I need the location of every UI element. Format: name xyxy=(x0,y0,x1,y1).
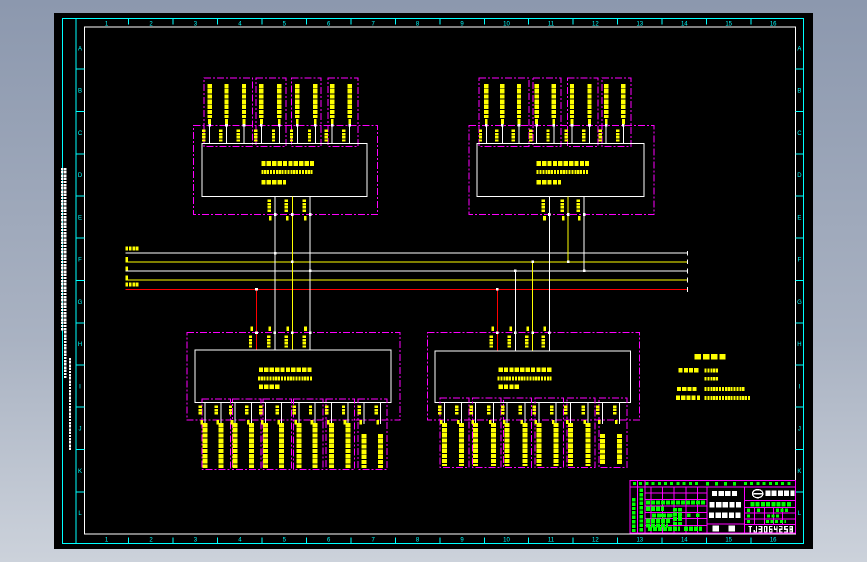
junction bus2-wire xyxy=(291,261,294,264)
svg-text:8: 8 xyxy=(416,538,420,544)
svg-text:K: K xyxy=(78,469,82,475)
signal tag xyxy=(588,119,591,124)
svg-text:G: G xyxy=(797,300,802,306)
svg-text:L: L xyxy=(798,511,802,517)
hydraulic cabinet 1 output wire 7 xyxy=(298,403,300,425)
signal tag xyxy=(491,326,494,330)
wire label xyxy=(438,405,441,414)
output signal label 10 xyxy=(346,423,351,468)
svg-text:J: J xyxy=(79,427,82,433)
controller name text xyxy=(259,368,312,373)
bus label SafetyBus xyxy=(126,283,139,287)
signal tag xyxy=(376,420,379,424)
feeder cabinet 1 terminal strip box 1 xyxy=(204,78,252,147)
wire label xyxy=(577,200,580,212)
junction xyxy=(331,124,334,127)
param line 1 label xyxy=(679,368,699,372)
output signal label 9 xyxy=(568,423,573,466)
signal tag xyxy=(269,326,272,330)
controller io text xyxy=(261,180,286,185)
junction xyxy=(291,331,294,334)
wire label xyxy=(259,406,262,415)
feeder cabinet 2 terminal strip box 4 xyxy=(602,78,631,147)
hydraulic cabinet 2 output wire 11 xyxy=(602,402,604,424)
hydraulic cabinet 1 output terminal box 4 xyxy=(293,399,323,470)
wire label xyxy=(564,405,567,414)
signal tag xyxy=(327,420,330,424)
feeder cabinet 1 input signal label 1 xyxy=(207,84,211,118)
wire label xyxy=(342,130,345,142)
wire xyxy=(243,124,245,144)
junction bus3 right b xyxy=(514,270,517,273)
bus label 2 xyxy=(126,257,129,261)
wire label xyxy=(229,406,232,415)
output signal label 11 xyxy=(361,434,366,468)
bus terminator tick xyxy=(687,259,689,264)
junction xyxy=(255,331,258,334)
signal tag xyxy=(314,119,317,124)
svg-text:11: 11 xyxy=(548,22,555,28)
wire label xyxy=(309,406,312,415)
signal tag xyxy=(251,326,254,330)
wire xyxy=(501,124,503,144)
signal tag xyxy=(622,119,625,124)
wire label xyxy=(199,406,202,415)
wire label xyxy=(374,406,377,415)
controller model text xyxy=(498,376,552,380)
feeder cabinet 2 input signal label 7 xyxy=(587,84,591,118)
svg-text:K: K xyxy=(797,469,801,475)
junction xyxy=(309,213,312,216)
tap wire white right xyxy=(514,271,516,351)
title block columns xyxy=(637,480,639,533)
feeder cabinet 1 comm wire 1 xyxy=(274,196,276,349)
hydraulic cabinet 1 output terminal box 1 xyxy=(202,399,231,470)
output signal label 2 xyxy=(219,423,224,468)
signal tag xyxy=(278,119,281,124)
bus net 5 safety (red) xyxy=(126,288,688,290)
hydraulic cabinet 2 output wire 8 xyxy=(555,402,557,424)
feeder cabinet 1 input signal label 7 xyxy=(313,84,317,118)
signal tag xyxy=(360,420,363,424)
approval column vertical xyxy=(639,489,643,532)
junction bus5 tap right xyxy=(496,288,499,291)
feeder cabinet 2 terminal strip box 2 xyxy=(533,78,561,147)
signal tag xyxy=(615,420,618,424)
output signal label 7 xyxy=(537,423,542,466)
wire label xyxy=(267,336,270,348)
signal tag xyxy=(296,119,299,124)
feeder cabinet 1 comm wire 3 xyxy=(309,196,311,349)
signal tag xyxy=(208,119,211,124)
bus label 4 xyxy=(126,275,129,279)
signal tag xyxy=(225,119,228,124)
wire label xyxy=(542,336,545,348)
wire label xyxy=(512,130,515,142)
controller name text xyxy=(499,368,552,373)
signal tag xyxy=(311,420,314,424)
junction bus2 right b xyxy=(531,261,534,264)
title name box divider xyxy=(707,523,744,525)
svg-text:B: B xyxy=(78,89,82,95)
output signal label 12 xyxy=(617,434,622,464)
controller io text xyxy=(537,180,562,185)
junction bus5 tap left xyxy=(255,288,258,291)
hydraulic cabinet 2 output terminal box 6 xyxy=(599,398,627,467)
title block header row xyxy=(630,486,796,488)
hydraulic cabinet 2 output wire 12 xyxy=(618,402,620,424)
left table entry blob xyxy=(673,508,677,525)
tap wire yellow right xyxy=(532,262,534,351)
project name text xyxy=(712,491,737,496)
wire label xyxy=(285,200,288,212)
signal tag xyxy=(501,119,504,124)
svg-text:A: A xyxy=(797,46,801,52)
output signal label 1 xyxy=(202,423,207,468)
tap wire red right xyxy=(496,289,498,351)
feeder cabinet 2 input signal label 8 xyxy=(604,84,608,118)
param line 4 label xyxy=(676,396,700,400)
feeder cabinet 1 terminal strip box 2 xyxy=(256,78,286,147)
wire xyxy=(536,124,538,144)
signal tag xyxy=(518,119,521,124)
param line 3 value xyxy=(705,387,745,391)
signal tag xyxy=(344,420,347,424)
svg-text:H: H xyxy=(78,342,82,348)
feeder cabinet 2 comm wire 2 xyxy=(567,196,569,261)
svg-text:D: D xyxy=(78,173,83,179)
wire label xyxy=(542,200,545,212)
svg-text:12: 12 xyxy=(592,22,599,28)
svg-text:10: 10 xyxy=(503,22,510,28)
signal tag xyxy=(260,119,263,124)
output signal label 4 xyxy=(491,423,496,466)
signal tag xyxy=(243,119,246,124)
svg-text:15: 15 xyxy=(725,22,732,28)
output signal label 4 xyxy=(249,423,254,468)
controller model text xyxy=(258,376,312,380)
junction bus3-wire xyxy=(309,270,312,273)
signal tag xyxy=(231,420,234,424)
wire label xyxy=(490,336,493,348)
signal tag xyxy=(294,420,297,424)
bus terminator tick xyxy=(687,278,689,283)
output signal label 3 xyxy=(473,423,478,466)
revision header entries xyxy=(633,482,698,485)
wire label xyxy=(249,336,252,348)
wire xyxy=(278,124,280,144)
wire xyxy=(260,124,262,144)
signal tag xyxy=(304,326,307,330)
svg-text:B: B xyxy=(797,89,801,95)
bus net 2 (yellow) xyxy=(126,261,688,263)
title block right table columns xyxy=(754,507,756,524)
svg-text:5: 5 xyxy=(283,538,287,544)
hydraulic cabinet 1 enclosure xyxy=(187,333,400,421)
junction bus3 right a xyxy=(583,270,586,273)
signal tag xyxy=(552,119,555,124)
signal tag xyxy=(520,420,523,424)
signal tag xyxy=(485,119,488,124)
svg-text:10: 10 xyxy=(503,538,510,544)
wire label xyxy=(308,130,311,142)
feeder cabinet 2 enclosure xyxy=(469,125,654,214)
junction xyxy=(348,124,351,127)
bus terminator tick xyxy=(687,287,689,292)
junction xyxy=(274,213,277,216)
wire label xyxy=(529,130,532,142)
feeder cabinet 2 input signal label 2 xyxy=(500,84,504,118)
wire xyxy=(518,124,520,144)
signal tag xyxy=(247,420,250,424)
wire label xyxy=(342,406,345,415)
hydraulic cabinet 1 output wire 4 xyxy=(250,403,252,425)
junction xyxy=(225,124,228,127)
hydraulic cabinet 1 output wire 9 xyxy=(330,403,332,425)
feeder cabinet 1 input signal label 8 xyxy=(330,84,334,118)
controller name text xyxy=(537,161,590,166)
output signal label 1 xyxy=(442,423,447,466)
param line 2 value xyxy=(705,377,719,381)
controller io text xyxy=(259,385,280,390)
wire label xyxy=(519,405,522,414)
junction xyxy=(518,124,521,127)
wire label xyxy=(245,406,248,415)
output signal label 7 xyxy=(296,423,301,468)
signal tag xyxy=(277,420,280,424)
wire label xyxy=(508,336,511,348)
wire label xyxy=(237,130,240,142)
controller unit U1 xyxy=(202,144,367,197)
hydraulic cabinet 2 output wire 1 xyxy=(443,402,445,424)
output signal label 11 xyxy=(600,434,605,464)
wire xyxy=(314,124,316,144)
hydraulic cabinet 2 output wire 3 xyxy=(475,402,477,424)
wire label xyxy=(546,130,549,142)
svg-text:2: 2 xyxy=(149,538,153,544)
junction xyxy=(501,124,504,127)
feeder cabinet 1 input signal label 4 xyxy=(259,84,263,118)
hydraulic cabinet 2 output terminal box 5 xyxy=(567,398,595,467)
hydraulic cabinet 2 output wire 10 xyxy=(587,402,589,424)
wire label xyxy=(455,405,458,414)
svg-text:E: E xyxy=(78,215,82,221)
output signal label 8 xyxy=(554,423,559,466)
junction xyxy=(571,124,574,127)
bus label ProfiBus xyxy=(126,247,139,251)
hydraulic cabinet 1 output terminal box 3 xyxy=(263,399,292,470)
wire label xyxy=(268,200,271,212)
junction xyxy=(260,124,263,127)
output signal label 8 xyxy=(313,423,318,468)
wire xyxy=(485,124,487,144)
wire label xyxy=(599,130,602,142)
wire label xyxy=(303,336,306,348)
controller io text xyxy=(499,385,520,390)
wire label xyxy=(533,405,536,414)
hydraulic cabinet 1 output terminal box 5 xyxy=(326,399,355,470)
feeder cabinet 1 input signal label 6 xyxy=(295,84,299,118)
left table entries xyxy=(646,501,705,505)
drawing sheet frame xyxy=(63,19,804,544)
svg-text:13: 13 xyxy=(636,538,643,544)
wire label xyxy=(293,406,296,415)
svg-text:14: 14 xyxy=(681,22,688,28)
junction xyxy=(531,331,534,334)
output signal label 5 xyxy=(505,423,510,466)
signal tag xyxy=(286,326,289,330)
hydraulic cabinet 2 output terminal box 3 xyxy=(504,398,532,467)
signal tag xyxy=(535,420,538,424)
junction xyxy=(588,124,591,127)
signal tag xyxy=(304,216,307,220)
signal tag xyxy=(503,420,506,424)
feeder cabinet 2 input signal label 9 xyxy=(621,84,625,118)
output signal label 5 xyxy=(263,423,268,468)
junction xyxy=(278,124,281,127)
signal tag xyxy=(457,420,460,424)
margin note text xyxy=(61,168,63,330)
wire label xyxy=(215,406,218,415)
feeder cabinet 1 terminal strip box 3 xyxy=(291,78,321,147)
svg-text:4: 4 xyxy=(238,538,242,544)
hydraulic cabinet 1 output wire 8 xyxy=(314,403,316,425)
feeder cabinet 2 input signal label 4 xyxy=(534,84,538,118)
hydraulic cabinet 1 output wire 12 xyxy=(380,403,382,425)
signal tag xyxy=(261,420,264,424)
hydraulic cabinet 2 output wire 7 xyxy=(538,402,540,424)
svg-text:A: A xyxy=(78,46,82,52)
wire label xyxy=(219,130,222,142)
junction xyxy=(296,124,299,127)
signal tag xyxy=(471,420,474,424)
wire label xyxy=(325,130,328,142)
wire label xyxy=(613,405,616,414)
svg-text:F: F xyxy=(798,258,802,264)
output signal label 9 xyxy=(329,423,334,468)
junction xyxy=(514,331,517,334)
feeder cabinet 1 enclosure xyxy=(193,125,377,214)
wire label xyxy=(495,130,498,142)
controller unit U4 xyxy=(435,351,631,403)
company logo xyxy=(753,490,763,498)
signal tag xyxy=(489,420,492,424)
signal tag xyxy=(578,216,581,220)
signal tag xyxy=(562,216,565,220)
junction xyxy=(496,331,499,334)
wire label xyxy=(290,130,293,142)
svg-text:7: 7 xyxy=(372,538,376,544)
wire xyxy=(553,124,555,144)
wire label xyxy=(285,336,288,348)
output signal label 10 xyxy=(586,423,591,466)
hydraulic cabinet 2 output terminal box 2 xyxy=(472,398,501,467)
wire label xyxy=(469,405,472,414)
junction xyxy=(208,124,211,127)
wire label xyxy=(596,405,599,414)
hydraulic cabinet 2 output terminal box 1 xyxy=(440,398,469,467)
svg-text:D: D xyxy=(797,173,802,179)
controller unit U3 xyxy=(195,350,391,403)
output signal label 6 xyxy=(522,423,527,466)
svg-text:15: 15 xyxy=(725,538,732,544)
wire label xyxy=(325,406,328,415)
wire xyxy=(226,124,228,144)
junction xyxy=(567,213,570,216)
junction xyxy=(535,124,538,127)
wire label xyxy=(275,406,278,415)
feeder cabinet 2 input signal label 1 xyxy=(484,84,488,118)
signal tag xyxy=(584,420,587,424)
svg-text:G: G xyxy=(78,300,83,306)
svg-text:9: 9 xyxy=(460,538,464,544)
output signal label 12 xyxy=(378,434,383,468)
wire label xyxy=(487,405,490,414)
junction xyxy=(309,331,312,334)
output signal label 6 xyxy=(279,423,284,468)
wire xyxy=(349,124,351,144)
hydraulic cabinet 2 output wire 5 xyxy=(506,402,508,424)
feeder cabinet 1 input signal label 2 xyxy=(224,84,228,118)
svg-text:I: I xyxy=(799,384,801,390)
wire label xyxy=(560,200,563,212)
bus terminator tick xyxy=(687,269,689,274)
bus net 1 (white) xyxy=(126,252,688,254)
controller name text xyxy=(261,161,314,166)
svg-text:11: 11 xyxy=(548,538,555,544)
svg-text:16: 16 xyxy=(770,538,777,544)
signal tag xyxy=(440,420,443,424)
bus label 3 xyxy=(126,266,129,270)
signal tag xyxy=(552,420,555,424)
feeder cabinet 2 comm wire 1 xyxy=(548,196,550,351)
svg-text:3: 3 xyxy=(194,538,198,544)
svg-text:14: 14 xyxy=(681,538,688,544)
hydraulic cabinet 1 output wire 1 xyxy=(204,403,206,425)
svg-text:1: 1 xyxy=(105,538,109,544)
signal tag xyxy=(605,119,608,124)
wire xyxy=(589,124,591,144)
param line 1 value xyxy=(705,369,719,373)
wire label xyxy=(358,406,361,415)
junction bus1-wire xyxy=(274,252,277,255)
param line 3 label xyxy=(677,387,697,391)
feeder cabinet 1 input signal label 9 xyxy=(348,84,352,118)
svg-text:J: J xyxy=(798,427,801,433)
signal tag xyxy=(286,216,289,220)
wire label xyxy=(501,405,504,414)
hydraulic cabinet 1 output wire 11 xyxy=(363,403,365,425)
bus net 4 (yellow) xyxy=(126,279,688,281)
wire label xyxy=(616,130,619,142)
signal tag xyxy=(509,326,512,330)
feeder cabinet 2 input signal label 3 xyxy=(517,84,521,118)
wire label xyxy=(550,405,553,414)
company sub text xyxy=(751,502,791,506)
svg-text:6: 6 xyxy=(327,538,331,544)
title block border xyxy=(630,480,796,533)
junction xyxy=(553,124,556,127)
hydraulic cabinet 2 output wire 4 xyxy=(492,402,494,424)
technical parameters title xyxy=(695,354,726,360)
junction xyxy=(583,213,586,216)
signal tag xyxy=(527,326,530,330)
feeder cabinet 2 comm wire 3 xyxy=(583,196,585,271)
wire label xyxy=(582,405,585,414)
junction xyxy=(548,331,551,334)
signal tag xyxy=(598,420,601,424)
junction xyxy=(273,331,276,334)
